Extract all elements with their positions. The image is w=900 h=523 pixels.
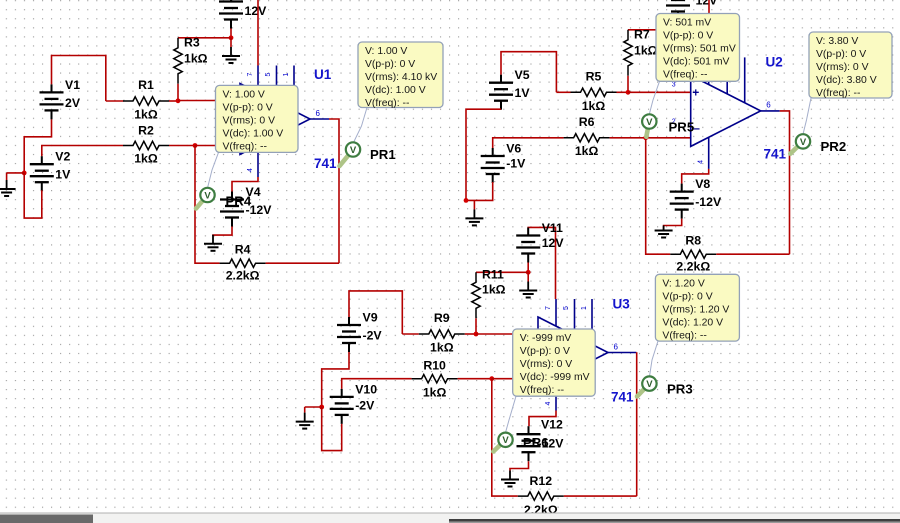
resistor R1 (horizontal) xyxy=(123,97,169,105)
wire U3 pin4 to V12 xyxy=(529,411,556,427)
ground GND at V11 xyxy=(519,282,537,298)
svg-text:V: V xyxy=(204,190,211,201)
wire V9- down to ground node c3 xyxy=(322,352,349,407)
wire R2 right to node B xyxy=(169,145,195,147)
DC source V11 xyxy=(516,228,540,263)
svg-text:7: 7 xyxy=(545,306,552,310)
wire V2+ to R2 xyxy=(42,146,123,157)
svg-text:2.2kΩ: 2.2kΩ xyxy=(226,269,260,283)
wire V1 corner to R1 left lead xyxy=(106,100,124,102)
svg-text:V: -999 mV: V: -999 mV xyxy=(520,333,572,344)
pin 1 stub of U2 xyxy=(744,57,746,102)
junction node D (R6/feedback, U2 - input) xyxy=(643,135,648,140)
wire R6 right to node D xyxy=(610,137,646,139)
wire V5+ up/over to R5 xyxy=(501,52,556,93)
DC source V1 xyxy=(40,84,64,119)
svg-text:V(p-p): 0 V: V(p-p): 0 V xyxy=(662,292,712,303)
wire node F down to feedback rail c3 xyxy=(492,379,518,496)
svg-text:V(dc): 1.20 V: V(dc): 1.20 V xyxy=(662,318,723,329)
svg-text:V(freq): --: V(freq): -- xyxy=(662,331,706,342)
scrollbar thumb xyxy=(0,515,93,523)
svg-text:R2: R2 xyxy=(138,124,154,138)
op-amp U2 (741) xyxy=(691,75,761,146)
resistor R5 (horizontal) xyxy=(571,88,617,96)
wire V6- down to ground node c2 xyxy=(466,182,493,200)
svg-text:V10: V10 xyxy=(355,382,377,396)
svg-text:V(freq): --: V(freq): -- xyxy=(520,385,564,396)
resistor R6 (horizontal) xyxy=(564,134,610,142)
svg-text:PR2: PR2 xyxy=(821,139,847,154)
wire ground node to GND c3 xyxy=(305,406,322,408)
svg-text:5: 5 xyxy=(265,73,272,77)
wire V2- loop to ground node xyxy=(24,173,42,218)
svg-text:PR1: PR1 xyxy=(370,147,396,162)
pin 7 stub of U3 xyxy=(555,299,557,326)
svg-text:-1V: -1V xyxy=(506,157,526,171)
svg-text:V: V xyxy=(800,137,807,148)
wire V5- down to ground node c2 xyxy=(466,109,501,200)
DC source V7 xyxy=(666,0,690,21)
svg-text:PR6: PR6 xyxy=(523,435,549,450)
wire GND stub circuit3 xyxy=(304,407,306,413)
svg-text:1V: 1V xyxy=(515,86,531,100)
DC source V3 xyxy=(219,0,243,29)
DC source V6 xyxy=(481,148,505,183)
svg-text:V(p-p): 0 V: V(p-p): 0 V xyxy=(223,103,273,114)
svg-text:V9: V9 xyxy=(363,311,378,325)
svg-text:R8: R8 xyxy=(685,234,701,248)
svg-text:R5: R5 xyxy=(586,69,602,83)
svg-text:PR3: PR3 xyxy=(667,382,693,397)
ground GND at V3 xyxy=(222,47,240,63)
wire U1 pin6 output xyxy=(329,119,339,263)
svg-text:V: 1.00 V: V: 1.00 V xyxy=(223,90,265,101)
svg-text:R9: R9 xyxy=(434,311,450,325)
resistor R12 (horizontal) xyxy=(518,492,564,500)
svg-text:4: 4 xyxy=(247,168,254,172)
wire R5 left lead wire xyxy=(556,91,570,93)
wire V+ supply to U1 pin7 xyxy=(257,0,259,66)
wire R4 to U1 output xyxy=(266,262,339,264)
wire V8- to ground xyxy=(664,219,682,231)
leader line from PR3 tooltip to probe xyxy=(650,341,659,376)
junction node B (R2/feedback, U1 - input) xyxy=(193,143,198,148)
probe PR3 xyxy=(637,376,657,396)
svg-text:4: 4 xyxy=(698,160,705,164)
ground GND at V8 xyxy=(655,226,673,238)
svg-text:V(dc): 1.00 V: V(dc): 1.00 V xyxy=(223,129,284,140)
wire R8 to U2 output xyxy=(716,253,789,255)
DC source V5 xyxy=(489,75,513,110)
svg-text:V: V xyxy=(646,379,653,390)
svg-text:V(dc): 501 mV: V(dc): 501 mV xyxy=(663,57,729,68)
wire V11- to junction xyxy=(527,263,529,273)
resistor R11 (vertical) xyxy=(472,272,480,318)
op-amp U1 (741) xyxy=(240,84,310,155)
svg-text:5: 5 xyxy=(563,306,570,310)
wire node B to U1 pin2 xyxy=(195,145,240,147)
svg-text:12V: 12V xyxy=(542,236,565,250)
svg-text:2.2kΩ: 2.2kΩ xyxy=(676,260,710,274)
svg-text:R3: R3 xyxy=(184,35,200,49)
wire R11 bottom to node E xyxy=(475,318,477,334)
wire V+ supply to U2 pin7 xyxy=(708,0,710,57)
svg-text:V: V xyxy=(350,145,357,156)
svg-text:V(p-p): 0 V: V(p-p): 0 V xyxy=(365,59,415,70)
svg-text:U1: U1 xyxy=(314,67,332,82)
wire U2 pin4 to V8 xyxy=(682,169,709,184)
svg-text:R1: R1 xyxy=(138,78,154,92)
wire junction to R11 top xyxy=(476,271,528,273)
svg-text:V8: V8 xyxy=(695,177,710,191)
svg-text:7: 7 xyxy=(247,73,254,77)
svg-text:V: 3.80 V: V: 3.80 V xyxy=(816,36,858,47)
svg-text:1kΩ: 1kΩ xyxy=(134,108,158,122)
svg-text:V(dc): 1.00 V: V(dc): 1.00 V xyxy=(365,85,426,96)
wire R10 right to node F xyxy=(458,378,492,380)
svg-text:V(rms): 1.20 V: V(rms): 1.20 V xyxy=(662,305,729,316)
svg-text:6: 6 xyxy=(614,342,619,351)
junction ground node circuit3 xyxy=(319,405,324,410)
pin 4 stub of U2 xyxy=(708,137,710,169)
svg-text:12V: 12V xyxy=(245,4,268,18)
svg-text:V6: V6 xyxy=(506,142,521,156)
svg-text:1kΩ: 1kΩ xyxy=(575,144,599,158)
wire V4- to ground xyxy=(213,227,232,237)
svg-text:V1: V1 xyxy=(65,78,80,92)
svg-text:PR4: PR4 xyxy=(226,194,252,209)
svg-text:V(rms): 0 V: V(rms): 0 V xyxy=(816,62,869,73)
pin 5 stub of U2 xyxy=(726,57,728,94)
svg-text:V(freq): --: V(freq): -- xyxy=(816,88,860,99)
measurement tooltip for probe PR3 xyxy=(655,274,739,341)
svg-text:V: V xyxy=(646,117,653,128)
svg-text:R10: R10 xyxy=(423,359,446,373)
wire node B down to feedback rail xyxy=(195,146,220,264)
op-amp U3 (741) xyxy=(538,317,608,388)
leader line from PR2 tooltip to probe xyxy=(803,98,811,134)
svg-text:-2V: -2V xyxy=(363,329,383,343)
leader line from PR5 tooltip to probe xyxy=(649,81,659,114)
junction node C (R5/R7, U2 + input) xyxy=(626,90,631,95)
leader line from PR1 tooltip to probe xyxy=(354,108,368,143)
svg-text:V(rms): 501 mV: V(rms): 501 mV xyxy=(663,44,736,55)
wire V9+ up/over to R9 xyxy=(349,291,402,334)
wire R7 bottom to node C xyxy=(627,76,629,93)
resistor R7 (vertical) xyxy=(624,30,632,76)
wire node C to U2 pin3 xyxy=(628,91,691,93)
divider line right section xyxy=(449,519,900,522)
svg-text:V11: V11 xyxy=(542,221,563,235)
svg-text:V(rms): 0 V: V(rms): 0 V xyxy=(520,359,573,370)
svg-text:-12V: -12V xyxy=(695,195,722,209)
pin 5 stub of U3 xyxy=(574,299,576,336)
svg-text:1kΩ: 1kΩ xyxy=(423,386,447,400)
measurement tooltip for probe PR5 xyxy=(656,14,740,82)
junction ground node circuit2 xyxy=(464,198,469,203)
probe PR5 xyxy=(642,114,656,137)
resistor R9 (horizontal) xyxy=(419,330,465,338)
wire node F to U3 pin2 xyxy=(492,378,538,380)
wire junction to ground stub c3 xyxy=(527,272,529,281)
junction V3-/R3/ground node xyxy=(229,35,234,40)
svg-text:U3: U3 xyxy=(613,297,631,312)
svg-text:V5: V5 xyxy=(515,68,530,82)
wire R9 left lead wire xyxy=(402,333,419,335)
svg-text:3: 3 xyxy=(672,81,676,88)
wire V7- to junction xyxy=(677,21,679,30)
DC source V12 xyxy=(517,426,541,461)
svg-text:R6: R6 xyxy=(579,115,595,129)
resistor R2 (horizontal) xyxy=(123,141,169,149)
svg-text:R12: R12 xyxy=(530,474,553,488)
ground GND at V5/V6 xyxy=(465,209,483,225)
wire U1 pin4 to V4 xyxy=(232,177,258,192)
svg-text:R7: R7 xyxy=(634,27,650,41)
junction node A (R1/R3, U1 + input) xyxy=(176,98,181,103)
wire V11+ over to U3 pin7 supply xyxy=(528,227,555,299)
wire V10- loop to ground node xyxy=(322,407,342,451)
svg-text:1kΩ: 1kΩ xyxy=(134,152,158,166)
svg-text:V(freq): --: V(freq): -- xyxy=(223,142,267,153)
svg-text:V: 501 mV: V: 501 mV xyxy=(663,18,711,29)
probe PR1 xyxy=(340,142,361,166)
wire V6+ to R6 xyxy=(493,138,564,148)
svg-text:V(rms): 0 V: V(rms): 0 V xyxy=(223,116,276,127)
wire U3 pin6 output xyxy=(636,352,638,496)
resistor R3 (vertical) xyxy=(174,38,182,84)
svg-text:1kΩ: 1kΩ xyxy=(430,341,454,355)
pin 6 (output) of U3 xyxy=(608,352,636,354)
probe PR6 xyxy=(493,433,512,452)
ground GND at V9/V10 xyxy=(296,413,314,429)
DC source V2 xyxy=(30,156,54,191)
svg-text:–: – xyxy=(693,121,700,135)
measurement tooltip for probe PR4 xyxy=(216,85,299,152)
wire U2 pin6 output xyxy=(780,111,790,254)
wire junction to ground stub xyxy=(230,38,232,47)
wire junction to R3 top xyxy=(178,37,231,39)
resistor R8 (horizontal) xyxy=(670,250,716,258)
wire R9 right to node E xyxy=(465,333,476,335)
pin 6 (output) of U2 xyxy=(761,110,780,112)
wire node A to U1 pin3 xyxy=(178,100,240,102)
pin 1 stub of U1 xyxy=(293,66,295,111)
wire R3 bottom to node A xyxy=(177,84,179,101)
ground GND at V4 xyxy=(204,235,222,251)
svg-text:R11: R11 xyxy=(482,268,504,282)
wire node D to U2 pin2 xyxy=(646,137,691,139)
DC source V8 xyxy=(670,184,694,219)
ground GND at V12 xyxy=(501,471,519,487)
wire R5 right to node C xyxy=(617,91,629,93)
svg-text:12V: 12V xyxy=(696,0,719,8)
svg-text:V(freq): --: V(freq): -- xyxy=(663,70,707,81)
svg-text:V12: V12 xyxy=(541,418,563,432)
svg-text:-2V: -2V xyxy=(355,399,375,413)
svg-text:1kΩ: 1kΩ xyxy=(482,283,506,297)
wire node E to U3 pin3 xyxy=(476,333,538,335)
svg-text:1V: 1V xyxy=(55,168,71,182)
svg-text:6: 6 xyxy=(766,101,771,110)
wire V1+ up/over to R1 xyxy=(52,56,106,102)
svg-text:4: 4 xyxy=(545,402,552,406)
svg-text:1kΩ: 1kΩ xyxy=(184,51,208,65)
junction V7-/R7/ground node xyxy=(676,27,681,32)
ground GND at V7 xyxy=(669,36,687,52)
wire V1- down to ground node xyxy=(24,119,51,172)
svg-text:U2: U2 xyxy=(766,55,783,70)
horizontal scrollbar / status strip at bottom xyxy=(0,513,900,514)
wire R1 right to node A xyxy=(169,100,178,102)
pin 4 stub of U1 xyxy=(257,145,259,177)
junction V11-/R11/ground node xyxy=(526,270,531,275)
ground GND at V2 xyxy=(0,180,16,196)
pin 7 stub of U2 xyxy=(708,57,710,84)
DC source V4 xyxy=(220,192,244,227)
resistor R4 (horizontal) xyxy=(220,259,266,267)
pin 5 stub of U1 xyxy=(276,66,278,103)
svg-text:V(freq): --: V(freq): -- xyxy=(365,98,409,109)
junction node F (R10/feedback, U3 - input) xyxy=(489,376,494,381)
svg-text:2V: 2V xyxy=(65,96,81,110)
wire R12 to U3 output xyxy=(564,495,637,497)
svg-text:V(dc): 3.80 V: V(dc): 3.80 V xyxy=(816,75,877,86)
pin 4 stub of U3 xyxy=(555,379,557,411)
svg-text:741: 741 xyxy=(611,390,634,405)
svg-text:6: 6 xyxy=(316,109,321,118)
pin 7 stub of U1 xyxy=(257,66,259,93)
junction ground node circuit1 xyxy=(22,171,27,176)
wire V12- to ground xyxy=(510,461,529,470)
probe PR4 xyxy=(196,188,215,209)
svg-text:1kΩ: 1kΩ xyxy=(634,43,658,57)
wire V10+ to R10 xyxy=(342,379,412,389)
svg-text:R4: R4 xyxy=(235,243,251,257)
svg-text:V(dc): -999 mV: V(dc): -999 mV xyxy=(520,372,590,383)
svg-text:741: 741 xyxy=(764,147,787,162)
probe PR2 xyxy=(790,134,810,154)
wire ground stub circuit2 xyxy=(473,200,475,209)
svg-text:1: 1 xyxy=(581,306,588,310)
svg-text:1: 1 xyxy=(283,73,290,77)
svg-text:PR5: PR5 xyxy=(669,120,695,135)
DC source V9 xyxy=(337,317,361,352)
svg-text:741: 741 xyxy=(314,156,337,171)
measurement tooltip for probe PR1 xyxy=(358,42,443,109)
DC source V10 xyxy=(330,389,354,424)
measurement tooltip for probe PR6 xyxy=(513,329,596,396)
junction node E (R9/R11, U3 + input) xyxy=(474,332,479,337)
wire junction to ground stub c2 xyxy=(677,30,679,36)
svg-text:V(p-p): 0 V: V(p-p): 0 V xyxy=(520,346,570,357)
svg-text:V: V xyxy=(502,435,509,446)
svg-text:V: 1.20 V: V: 1.20 V xyxy=(662,279,704,290)
pin 6 (output) of U1 xyxy=(310,118,329,120)
measurement tooltip for probe PR2 xyxy=(809,32,892,99)
svg-text:V(p-p): 0 V: V(p-p): 0 V xyxy=(663,31,713,42)
pin 1 stub of U3 xyxy=(591,299,593,344)
wire node D down to feedback rail c2 xyxy=(646,138,671,254)
wire GND stub circuit1 xyxy=(6,173,8,180)
svg-text:V(p-p): 0 V: V(p-p): 0 V xyxy=(816,49,866,60)
leader line from PR6 tooltip to probe xyxy=(506,396,517,432)
resistor R10 (horizontal) xyxy=(412,375,458,383)
svg-text:V2: V2 xyxy=(55,150,70,164)
svg-text:V(rms): 4.10 kV: V(rms): 4.10 kV xyxy=(365,72,437,83)
leader line from PR4 tooltip to probe xyxy=(208,152,219,188)
svg-text:+: + xyxy=(692,85,699,99)
svg-text:1kΩ: 1kΩ xyxy=(582,99,606,113)
wire junction to R7 top xyxy=(628,29,678,31)
wire V3- to junction xyxy=(230,29,232,38)
svg-text:V: 1.00 V: V: 1.00 V xyxy=(365,46,407,57)
wire ground node to GND xyxy=(7,172,25,174)
